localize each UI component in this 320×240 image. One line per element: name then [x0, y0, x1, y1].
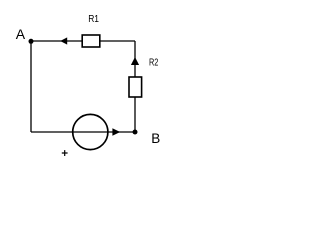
svg-text:A: A [16, 26, 26, 42]
resistor R2 body [129, 77, 142, 97]
node A junction dot [29, 39, 34, 44]
wire top (node A to top-right corner) [31, 40, 135, 42]
wire bottom (bottom-left corner through source to node B) [31, 131, 135, 133]
current arrow on bottom wire pointing right toward B [112, 128, 120, 135]
svg-text:R1: R1 [88, 14, 99, 25]
current arrow on top wire pointing left toward A [60, 37, 67, 44]
svg-text:B: B [151, 131, 160, 146]
node B junction dot [133, 130, 138, 135]
resistor R1 body [82, 35, 100, 47]
current arrow on right wire pointing up [131, 57, 139, 65]
svg-text:R2: R2 [149, 58, 159, 69]
wire left (node A down to bottom-left corner) [30, 41, 32, 132]
wire right (top-right corner down to node B) [134, 41, 136, 132]
source V1 circle [73, 114, 108, 149]
source plus sign [62, 150, 68, 156]
